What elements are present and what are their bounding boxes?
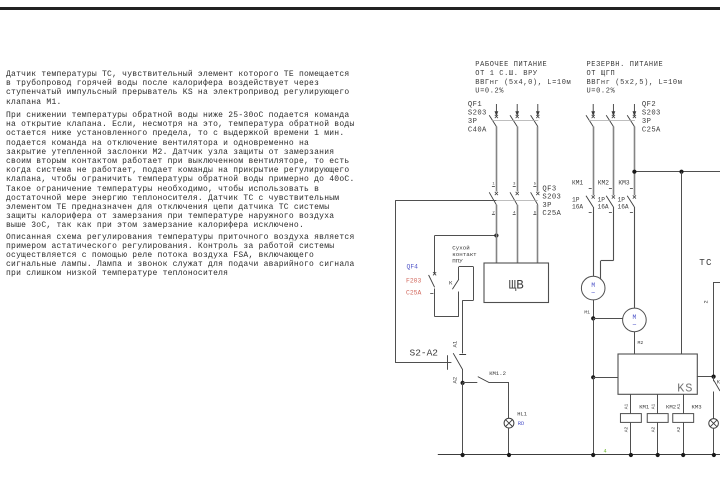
controller KS box xyxy=(618,354,697,396)
svg-text:ОТ 1 С.Ш. ВРУ: ОТ 1 С.Ш. ВРУ xyxy=(475,70,538,78)
svg-text:РЕЗЕРВН. ПИТАНИЕ: РЕЗЕРВН. ПИТАНИЕ xyxy=(587,61,664,69)
wire QF3.4 to ShchV xyxy=(517,205,519,263)
svg-text:ЩВ: ЩВ xyxy=(509,279,525,293)
wire QF4 bottom to K xyxy=(435,316,459,318)
svg-text:KS: KS xyxy=(677,382,693,396)
feeder label: reserve supply xyxy=(587,61,683,96)
svg-text:3: 3 xyxy=(513,183,516,187)
coil КМ1 xyxy=(620,394,649,455)
svg-text:QF2: QF2 xyxy=(642,101,656,109)
svg-text:А2: А2 xyxy=(624,427,630,433)
node bus/M common xyxy=(591,453,595,457)
svg-text:RD: RD xyxy=(518,421,524,427)
svg-text:16А: 16А xyxy=(572,204,583,211)
wire KS left input xyxy=(593,377,618,379)
breaker QF1 3-pole xyxy=(489,104,540,127)
coil КМ2 xyxy=(647,394,676,455)
svg-text:3Р: 3Р xyxy=(642,118,651,126)
breaker QF4 xyxy=(429,272,437,317)
svg-text:5: 5 xyxy=(534,183,537,187)
svg-text:HL1: HL1 xyxy=(517,411,527,417)
wire HL1 to bus xyxy=(508,428,510,455)
node TC / KM3.2 xyxy=(712,375,716,379)
svg-text:ППУ: ППУ xyxy=(452,257,463,264)
wire QF2.2-KM1.1 xyxy=(593,127,595,196)
wire lamp to bus xyxy=(713,428,715,455)
node bus/HL right xyxy=(712,453,716,457)
svg-text:3Р: 3Р xyxy=(468,118,477,126)
node QF3 pole1 / QF4 tap xyxy=(494,233,498,237)
node KS left tap xyxy=(591,375,595,379)
svg-text:А1: А1 xyxy=(624,404,630,410)
svg-text:КМ2: КМ2 xyxy=(598,180,609,187)
svg-text:1Р: 1Р xyxy=(618,197,626,204)
wire KM1.2 to HL1 xyxy=(508,383,510,419)
wire L3 QF1.6-QF3.5 xyxy=(537,127,539,192)
node bus/KM1 coil xyxy=(629,453,633,457)
svg-text:1Р: 1Р xyxy=(572,197,580,204)
svg-text:А1: А1 xyxy=(452,340,459,347)
wire K staple top xyxy=(459,266,474,268)
wire KS right output xyxy=(697,376,714,378)
wire QF2.4-KM2.1 xyxy=(613,127,615,196)
node TC return tap xyxy=(679,170,683,174)
label QF4 (blue) F203 C25A (red) xyxy=(406,264,422,297)
svg-text:ТС: ТС xyxy=(699,257,712,268)
label QF2 S203 3P C25A xyxy=(642,101,661,135)
wire M1 to node xyxy=(593,300,595,319)
svg-text:QF1: QF1 xyxy=(468,101,482,109)
wire QF4 staple top xyxy=(435,236,497,274)
wire node down to bus xyxy=(593,377,595,455)
wire left loop vertical xyxy=(395,200,397,363)
wire KM2 to M1 (jog) xyxy=(601,207,614,279)
svg-text:ВВГнг (5х4,0), L=10м: ВВГнг (5х4,0), L=10м xyxy=(475,79,571,87)
node bus/KM2 coil xyxy=(656,453,660,457)
wire node to M2 xyxy=(593,318,622,320)
wire QF3.6 to ShchV xyxy=(537,205,539,263)
svg-text:ВВГнг (5х2,5), L=10м: ВВГнг (5х2,5), L=10м xyxy=(587,79,683,87)
node bus/KM3 coil xyxy=(681,453,685,457)
linkage QF3 poles xyxy=(496,200,537,202)
wire QF2.6-KM3.1 xyxy=(634,127,636,196)
wire left loop bottom to S2-A2 actuator xyxy=(395,355,451,370)
svg-text:16А: 16А xyxy=(618,204,629,211)
svg-text:C25A: C25A xyxy=(542,210,561,218)
lamp HL right xyxy=(709,419,719,429)
wire M2 bottom to KS xyxy=(634,332,636,354)
svg-text:U=0.2%: U=0.2% xyxy=(587,88,616,96)
svg-text:К: К xyxy=(449,280,453,287)
svg-text:КМ1: КМ1 xyxy=(572,180,583,187)
svg-text:S203: S203 xyxy=(642,110,661,118)
motor M2 (damper drive) xyxy=(623,308,647,332)
switch S2-A2 pin A1 xyxy=(452,340,467,354)
svg-text:S2-A2: S2-A2 xyxy=(410,348,439,359)
svg-text:C25A: C25A xyxy=(642,127,661,135)
switch S2-A2 pin A2 xyxy=(452,369,463,383)
node bus/HL1 xyxy=(507,453,511,457)
node QF2.6/TC tap xyxy=(632,170,636,174)
svg-text:А1: А1 xyxy=(650,404,656,410)
label QF1 S203 3P C40A xyxy=(468,101,487,135)
breaker QF3 3-pole xyxy=(489,183,539,216)
svg-text:~: ~ xyxy=(591,290,595,298)
wire feed to S2-A2 loop xyxy=(395,200,496,202)
svg-text:КМ2: КМ2 xyxy=(666,404,676,411)
node bus/A2 xyxy=(461,453,465,457)
contact K (dry contact) xyxy=(449,267,459,317)
contactor pole КМ3 xyxy=(618,180,637,213)
svg-text:S203: S203 xyxy=(542,194,561,202)
wire KM1 to M1 xyxy=(593,207,595,276)
svg-text:А2: А2 xyxy=(676,427,682,433)
neutral bus N xyxy=(438,454,720,456)
switch S2-A2 blade xyxy=(453,353,462,369)
lamp HL1 xyxy=(504,411,527,428)
svg-text:КМ1: КМ1 xyxy=(639,404,650,411)
wire A2 down to bus xyxy=(462,383,464,455)
svg-text:А2: А2 xyxy=(452,377,459,384)
wire L1 QF1.2-QF3.1 xyxy=(496,127,498,192)
label QF3 S203 3P C25A xyxy=(542,186,561,219)
svg-text:КМ1.2: КМ1.2 xyxy=(489,370,506,377)
contact KM1.2 xyxy=(463,370,509,383)
svg-text:ОТ ЩГП: ОТ ЩГП xyxy=(587,70,616,78)
feeder label: working supply xyxy=(475,61,571,96)
wire L2 QF1.4-QF3.3 xyxy=(517,127,519,192)
svg-text:16А: 16А xyxy=(598,204,609,211)
svg-text:М1: М1 xyxy=(584,310,590,316)
wire common node down xyxy=(593,318,595,377)
svg-text:QF4: QF4 xyxy=(407,264,419,271)
wire TC return down to KS xyxy=(681,172,683,354)
svg-text:2: 2 xyxy=(704,300,710,303)
wire KM3 to M2 xyxy=(634,207,636,308)
svg-text:КМ3: КМ3 xyxy=(692,404,702,411)
node M1/M2 common xyxy=(591,316,595,320)
breaker QF2 3-pole xyxy=(586,104,636,127)
svg-text:C40A: C40A xyxy=(468,127,487,135)
svg-text:М: М xyxy=(591,282,595,289)
svg-text:А2: А2 xyxy=(650,427,656,433)
motor M1 (valve drive) xyxy=(581,276,605,300)
svg-text:~: ~ xyxy=(632,321,636,329)
svg-text:C25A: C25A xyxy=(406,290,422,297)
svg-text:1Р: 1Р xyxy=(598,197,606,204)
svg-text:4: 4 xyxy=(604,449,607,455)
svg-text:А1: А1 xyxy=(676,404,682,410)
top sheet rule xyxy=(0,7,720,10)
node A2 junction xyxy=(461,381,465,385)
contact KM3.2 (right) xyxy=(714,377,720,419)
contactor pole КМ2 xyxy=(598,180,616,213)
wire QF3.2 to ShchV xyxy=(496,205,498,263)
label dry contact PPU xyxy=(452,245,477,265)
svg-text:М2: М2 xyxy=(638,340,644,346)
svg-text:РАБОЧЕЕ ПИТАНИЕ: РАБОЧЕЕ ПИТАНИЕ xyxy=(475,61,547,69)
svg-text:U=0.2%: U=0.2% xyxy=(475,88,504,96)
svg-text:1: 1 xyxy=(492,183,495,187)
svg-text:S203: S203 xyxy=(468,110,487,118)
svg-text:3Р: 3Р xyxy=(542,202,551,210)
wire K right leg down to A1 xyxy=(462,267,473,354)
svg-text:М: М xyxy=(633,314,637,321)
svg-text:КМ3: КМ3 xyxy=(618,180,629,187)
wire tap to TC sensor circuit xyxy=(634,171,720,173)
coil КМ3 xyxy=(673,394,702,455)
contactor pole КМ1 xyxy=(572,180,595,213)
svg-text:QF3: QF3 xyxy=(542,186,556,194)
box ShchV (fan panel) xyxy=(484,263,549,303)
svg-text:F203: F203 xyxy=(406,278,422,285)
sensor TC box corner xyxy=(714,282,720,377)
